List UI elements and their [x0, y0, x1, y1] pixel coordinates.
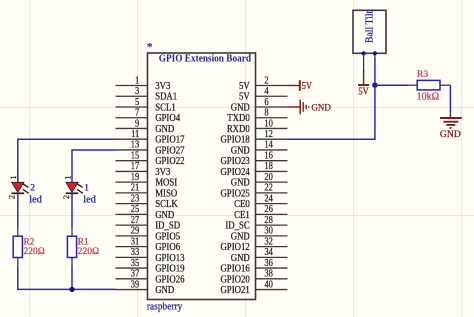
- svg-text:MISO: MISO: [155, 188, 177, 199]
- svg-text:19: 19: [131, 172, 140, 183]
- node A junction dot: [372, 83, 377, 88]
- svg-text:GPIO12: GPIO12: [220, 242, 249, 253]
- svg-text:1: 1: [62, 175, 72, 179]
- pin 11 (GPIO17): [116, 129, 185, 146]
- wire Ball Tilt pin 2 to node A: [374, 58, 376, 85]
- svg-text:10: 10: [264, 118, 273, 129]
- junction dot GND rail: [69, 287, 74, 292]
- svg-text:SCL1: SCL1: [155, 102, 176, 113]
- pin 31 (GPIO6): [116, 236, 181, 253]
- svg-text:21: 21: [131, 183, 140, 194]
- wire node A to R3: [375, 84, 408, 86]
- svg-text:32: 32: [264, 236, 273, 247]
- pin 25 (GND): [116, 204, 175, 221]
- svg-text:GND: GND: [155, 210, 174, 221]
- svg-text:5V: 5V: [239, 92, 250, 103]
- svg-text:GND: GND: [231, 178, 250, 189]
- svg-text:24: 24: [264, 193, 273, 204]
- resistor R1 body: [67, 226, 76, 268]
- svg-text:GPIO25: GPIO25: [220, 188, 249, 199]
- svg-text:33: 33: [131, 247, 140, 258]
- svg-text:SDA1: SDA1: [155, 92, 177, 103]
- svg-text:23: 23: [131, 193, 140, 204]
- svg-text:Ball Tilt: Ball Tilt: [365, 11, 376, 44]
- svg-text:GPIO16: GPIO16: [220, 264, 249, 275]
- svg-text:2: 2: [7, 195, 17, 199]
- svg-text:GND: GND: [231, 231, 250, 242]
- LED D1 pin number 1 (rotated): [62, 175, 72, 179]
- svg-text:2: 2: [30, 183, 35, 193]
- pin 26 (CE1): [234, 204, 287, 221]
- wire LED D2 cathode to R2: [17, 193, 19, 227]
- svg-text:18: 18: [264, 161, 273, 172]
- svg-text:GPIO4: GPIO4: [155, 113, 180, 124]
- ground port GND at pin 6: [288, 100, 309, 115]
- svg-text:GND: GND: [231, 102, 250, 113]
- LED designator 1: [84, 183, 89, 193]
- svg-text:6: 6: [264, 97, 268, 108]
- svg-text:SCLK: SCLK: [155, 199, 178, 210]
- svg-text:7: 7: [135, 108, 139, 119]
- svg-text:5V: 5V: [358, 86, 369, 97]
- LED designator 2: [30, 183, 35, 193]
- svg-text:9: 9: [135, 118, 139, 129]
- svg-text:led: led: [29, 194, 42, 205]
- pin 8 (TXD0): [227, 108, 287, 125]
- LED D2 cathode bar: [11, 192, 24, 194]
- LED D2 pin number 2 (rotated): [7, 195, 17, 199]
- svg-text:GND: GND: [155, 285, 174, 296]
- pin 16 (GPIO23): [220, 150, 287, 167]
- svg-text:38: 38: [264, 269, 273, 280]
- svg-text:35: 35: [131, 258, 140, 269]
- IC designator *: [147, 40, 153, 54]
- resistor designator R2: [24, 238, 35, 248]
- svg-text:GND: GND: [231, 145, 250, 156]
- svg-text:13: 13: [131, 140, 140, 151]
- Ball Tilt pin 1 dot: [362, 51, 366, 55]
- pin 39 (GND): [116, 279, 175, 296]
- IC comment raspberry: [147, 302, 183, 313]
- svg-text:40: 40: [264, 279, 273, 290]
- pin 38 (GPIO20): [220, 269, 287, 286]
- svg-text:GPIO22: GPIO22: [155, 156, 184, 167]
- LED D1 triangle (anode): [66, 182, 78, 192]
- svg-text:220Ω: 220Ω: [24, 247, 45, 257]
- pin 35 (GPIO19): [116, 258, 185, 275]
- svg-text:27: 27: [131, 215, 140, 226]
- Ball Tilt pin 2 dot: [373, 51, 377, 55]
- svg-text:28: 28: [264, 215, 273, 226]
- resistor R2 body: [13, 226, 22, 268]
- svg-text:39: 39: [131, 279, 140, 290]
- svg-text:5: 5: [135, 97, 139, 108]
- wire R2 bottom to GND rail: [18, 267, 72, 289]
- svg-text:MOSI: MOSI: [155, 178, 177, 189]
- LED D1 comment led: [83, 194, 96, 205]
- pin 28 (ID_SC): [225, 215, 287, 232]
- svg-text:led: led: [83, 194, 96, 205]
- svg-text:GPIO6: GPIO6: [155, 242, 180, 253]
- svg-text:GPIO19: GPIO19: [155, 264, 184, 275]
- svg-text:raspberry: raspberry: [147, 302, 183, 313]
- svg-text:26: 26: [264, 204, 273, 215]
- power port 5V at pin 2: [288, 80, 300, 91]
- wire LED D1 cathode to R1: [71, 193, 73, 227]
- pin 34 (GND): [231, 247, 288, 264]
- pin 1 (3V3): [116, 75, 171, 92]
- pin 6 (GND): [231, 97, 288, 114]
- svg-text:5V: 5V: [239, 81, 250, 92]
- Ball Tilt pin 1 stub: [363, 53, 365, 72]
- LED D2 triangle (anode): [12, 182, 24, 192]
- LED D1 arrows: [77, 184, 83, 193]
- pin 4 (5V): [239, 86, 287, 103]
- svg-text:37: 37: [131, 269, 140, 280]
- svg-text:15: 15: [131, 150, 140, 161]
- svg-text:GND: GND: [311, 103, 330, 114]
- pin 36 (GPIO16): [220, 258, 287, 275]
- svg-text:1: 1: [84, 183, 89, 193]
- pin 3 (SDA1): [116, 86, 178, 103]
- svg-text:20: 20: [264, 172, 273, 183]
- resistor designator R1: [78, 238, 89, 248]
- sensor Ball Tilt body: [353, 10, 386, 53]
- pin 12 (GPIO18): [220, 129, 287, 146]
- svg-text:GPIO13: GPIO13: [155, 253, 184, 264]
- pin 13 (GPIO27): [116, 140, 185, 157]
- svg-text:ID_SD: ID_SD: [155, 221, 180, 232]
- pin 40 (GPIO21): [220, 279, 287, 296]
- pin 20 (GND): [231, 172, 288, 189]
- svg-text:1: 1: [135, 75, 139, 86]
- pin 19 (MOSI): [116, 172, 178, 189]
- svg-text:GPIO5: GPIO5: [155, 231, 180, 242]
- svg-text:5V: 5V: [302, 81, 313, 92]
- pin 7 (GPIO4): [116, 108, 181, 125]
- svg-text:2: 2: [61, 195, 71, 199]
- svg-text:22: 22: [264, 183, 273, 194]
- resistor designator R3: [417, 70, 428, 80]
- IC U* GPIO Extension Board body: [148, 53, 256, 300]
- pin 30 (GND): [231, 226, 288, 243]
- pin 32 (GPIO12): [220, 236, 287, 253]
- svg-text:1: 1: [8, 175, 18, 179]
- svg-text:GPIO20: GPIO20: [220, 274, 249, 285]
- LED D2 pin number 1 (rotated): [8, 175, 18, 179]
- svg-text:CE0: CE0: [234, 199, 250, 210]
- svg-text:RXD0: RXD0: [227, 124, 250, 135]
- LED D1 cathode bar: [66, 192, 79, 194]
- ground port GND label (R3): [440, 129, 461, 140]
- resistor R3 value 10k: [417, 92, 439, 103]
- svg-text:3V3: 3V3: [155, 167, 170, 178]
- svg-text:3V3: 3V3: [155, 81, 170, 92]
- svg-text:11: 11: [131, 129, 139, 140]
- svg-text:30: 30: [264, 226, 273, 237]
- IC title GPIO Extension Board: [159, 54, 251, 65]
- svg-text:ID_SC: ID_SC: [225, 221, 250, 232]
- pin 17 (3V3): [116, 161, 171, 178]
- wire GND rail to pin 39: [72, 288, 116, 290]
- svg-text:GPIO21: GPIO21: [220, 285, 249, 296]
- pin 33 (GPIO13): [116, 247, 185, 264]
- LED D2 comment led: [29, 194, 42, 205]
- svg-text:10kΩ: 10kΩ: [417, 92, 439, 103]
- svg-text:GPIO17: GPIO17: [155, 135, 184, 146]
- svg-text:GPIO23: GPIO23: [220, 156, 249, 167]
- svg-text:2: 2: [264, 75, 268, 86]
- svg-text:220Ω: 220Ω: [78, 247, 99, 257]
- svg-text:*: *: [147, 40, 153, 54]
- svg-text:CE1: CE1: [234, 210, 250, 221]
- svg-text:GPIO27: GPIO27: [155, 145, 184, 156]
- resistor R2 value 220&#937;: [24, 247, 45, 257]
- ground port GND at R3: [440, 111, 462, 128]
- svg-text:GPIO24: GPIO24: [220, 167, 249, 178]
- resistor R3 body: [407, 80, 450, 90]
- svg-text:GND: GND: [231, 253, 250, 264]
- svg-text:14: 14: [264, 140, 273, 151]
- power port 5V label (pin 2): [302, 81, 313, 92]
- svg-text:17: 17: [131, 161, 140, 172]
- sensor Ball Tilt label (rotated): [365, 11, 376, 44]
- svg-text:34: 34: [264, 247, 273, 258]
- svg-text:GPIO26: GPIO26: [155, 274, 184, 285]
- pin 23 (SCLK): [116, 193, 179, 210]
- pin 15 (GPIO22): [116, 150, 185, 167]
- Ball Tilt pin 2 stub: [374, 53, 376, 60]
- svg-text:16: 16: [264, 150, 273, 161]
- pin 37 (GPIO26): [116, 269, 185, 286]
- power port 5V at Ball Tilt pin 1: [358, 70, 369, 85]
- svg-text:GND: GND: [155, 124, 174, 135]
- wire R1 bottom to GND rail: [71, 267, 73, 289]
- pin 22 (GPIO25): [220, 183, 287, 200]
- svg-text:GND: GND: [440, 129, 461, 140]
- svg-text:GPIO Extension Board: GPIO Extension Board: [159, 54, 251, 65]
- svg-text:31: 31: [131, 236, 140, 247]
- pin 27 (ID_SD): [116, 215, 181, 232]
- LED D1 pin number 2 (rotated): [61, 195, 71, 199]
- pin 21 (MISO): [116, 183, 178, 200]
- pin 29 (GPIO5): [116, 226, 181, 243]
- resistor R1 value 220&#937;: [78, 247, 99, 257]
- pin 14 (GND): [231, 140, 288, 157]
- power port 5V label (Ball Tilt): [358, 86, 369, 97]
- svg-text:TXD0: TXD0: [227, 113, 249, 124]
- svg-text:GPIO18: GPIO18: [220, 135, 249, 146]
- svg-text:4: 4: [264, 86, 268, 97]
- LED D2 arrows: [23, 184, 29, 193]
- wire R3 to GND: [449, 85, 451, 112]
- wire GPIO17 (pin 11) to LED D2 anode: [18, 139, 116, 182]
- svg-text:29: 29: [131, 226, 140, 237]
- pin 5 (SCL1): [116, 97, 176, 114]
- svg-text:36: 36: [264, 258, 273, 269]
- svg-text:25: 25: [131, 204, 140, 215]
- ground port GND label (pin 6): [311, 103, 330, 114]
- svg-text:R3: R3: [417, 70, 428, 80]
- pin 18 (GPIO24): [220, 161, 287, 178]
- pin 10 (RXD0): [227, 118, 288, 135]
- wire node A down to GPIO18 (pin 12): [288, 85, 375, 139]
- pin 24 (CE0): [234, 193, 287, 210]
- svg-text:12: 12: [264, 129, 273, 140]
- wire GPIO27 (pin 13) to LED D1 anode: [72, 150, 116, 182]
- svg-text:8: 8: [264, 108, 268, 119]
- pin 9 (GND): [116, 118, 175, 135]
- svg-text:3: 3: [135, 86, 139, 97]
- pin 2 (5V): [239, 75, 287, 92]
